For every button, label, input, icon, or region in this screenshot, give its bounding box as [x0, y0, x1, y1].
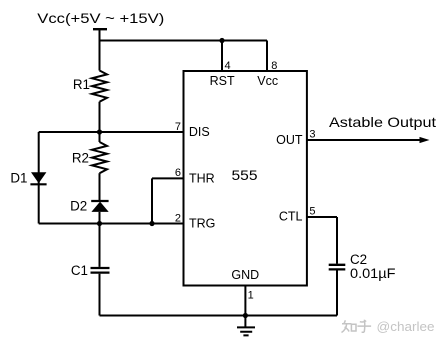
- wire Vcc rail to pin 8: [100, 40, 268, 42]
- diode D2: [91, 202, 108, 212]
- wire DIS node to R2 top: [99, 132, 101, 142]
- capacitor C1: [91, 268, 110, 273]
- svg-text:4: 4: [225, 60, 231, 72]
- svg-text:Vcc: Vcc: [257, 74, 278, 88]
- svg-text:1: 1: [248, 290, 254, 302]
- wire CTL pin 5: [307, 217, 337, 264]
- wire C1 bottom to ground rail: [99, 274, 101, 316]
- capacitor C2: [329, 265, 346, 270]
- wire pin 4 stub: [221, 41, 223, 72]
- svg-text:7: 7: [175, 121, 181, 133]
- svg-text:D2: D2: [70, 198, 87, 213]
- op-amp U1 555 IC body: [184, 71, 307, 286]
- junction node TRG/THR: [149, 221, 154, 226]
- junction node TRG/D2/C1: [97, 221, 102, 226]
- wire pin 8 stub: [266, 41, 268, 72]
- resistor R2: [92, 142, 107, 173]
- svg-text:2: 2: [175, 212, 181, 224]
- wire bottom ground rail: [100, 315, 338, 317]
- wire Vcc bar to R1 top: [99, 29, 101, 70]
- svg-text:DIS: DIS: [189, 125, 210, 139]
- wire TRG node to C1 top: [99, 224, 101, 267]
- wire OUT pin 3 with arrow: [307, 139, 422, 141]
- svg-text:TRG: TRG: [189, 217, 215, 231]
- svg-text:D1: D1: [10, 170, 27, 185]
- svg-text:C1: C1: [71, 263, 88, 278]
- svg-text:5: 5: [309, 206, 315, 218]
- svg-text:6: 6: [175, 167, 181, 179]
- wire D2 anode to TRG node: [99, 212, 101, 224]
- svg-text:THR: THR: [189, 171, 215, 185]
- wire TRG line pin 2: [39, 223, 184, 225]
- junction node at pin 4: [219, 38, 224, 43]
- ground symbol: [237, 327, 255, 335]
- wire DIS line pin 7: [39, 131, 184, 133]
- svg-text:@charlee: @charlee: [377, 319, 435, 334]
- svg-text:555: 555: [232, 167, 258, 183]
- wire THR pin 6: [152, 177, 184, 179]
- svg-text:OUT: OUT: [276, 133, 303, 147]
- resistor R1: [92, 71, 107, 102]
- svg-text:Vcc(+5V ~ +15V): Vcc(+5V ~ +15V): [37, 10, 164, 26]
- svg-text:8: 8: [271, 60, 277, 72]
- wire left branch vertical through D1: [38, 132, 40, 224]
- svg-text:CTL: CTL: [279, 210, 303, 224]
- power Vcc terminal bar: [93, 28, 107, 30]
- wire R2 bottom to D2 cathode: [99, 173, 101, 201]
- svg-text:0.01µF: 0.01µF: [350, 266, 396, 281]
- svg-text:R2: R2: [72, 150, 89, 165]
- watermark zhihu @charlee: [342, 320, 372, 333]
- arrowhead of output: [420, 137, 430, 143]
- junction node ground: [243, 313, 248, 318]
- svg-text:RST: RST: [210, 74, 235, 88]
- wire C2 bottom to ground rail: [336, 271, 338, 316]
- wire R1 bottom to DIS node: [99, 102, 101, 132]
- junction node DIS/R1/R2: [97, 129, 102, 134]
- svg-text:Astable Output: Astable Output: [329, 114, 436, 130]
- svg-text:R1: R1: [73, 77, 90, 92]
- svg-text:C2: C2: [350, 252, 367, 267]
- wire THR to TRG vertical: [151, 178, 153, 223]
- svg-text:3: 3: [309, 129, 315, 141]
- diode D1: [31, 172, 46, 183]
- svg-text:GND: GND: [231, 268, 259, 282]
- wire GND pin 1 stub: [244, 286, 246, 328]
